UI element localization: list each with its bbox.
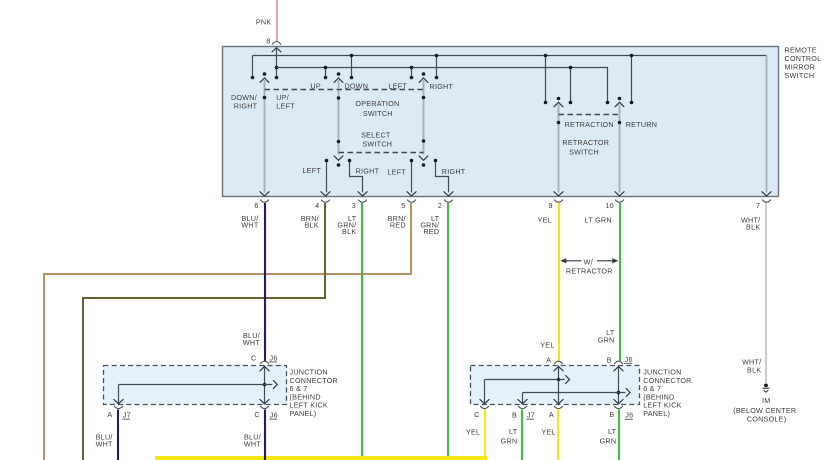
label W/ RETRACTOR [566, 257, 613, 275]
svg-text:J7: J7 [123, 411, 131, 420]
svg-text:UP: UP [310, 81, 321, 90]
svg-text:9: 9 [548, 201, 552, 210]
svg-text:7: 7 [756, 201, 760, 210]
label WHT/BLK pin 7 [741, 216, 760, 232]
svg-text:YEL: YEL [541, 428, 555, 437]
svg-text:PANEL): PANEL) [643, 409, 670, 418]
wire stub down contact [350, 54, 354, 80]
pin 6 [254, 192, 269, 210]
label REMOTE CONTROL MIRROR SWITCH [785, 45, 822, 80]
switch pole up-left to pin 6 [260, 72, 269, 192]
wire BLU/WHT junction A down [117, 410, 119, 460]
label SELECT SWITCH [361, 130, 392, 148]
svg-text:YEL: YEL [538, 216, 552, 225]
pin 2 [438, 192, 453, 210]
junction left internal bus arrow [119, 381, 278, 389]
junction right internal vertical to C [480, 380, 489, 405]
svg-text:YEL: YEL [466, 428, 480, 437]
svg-text:C: C [251, 353, 256, 362]
svg-text:C: C [474, 410, 479, 419]
label LT GRN mid [598, 328, 615, 345]
retractor switch linkage dashed [559, 114, 620, 116]
svg-text:5: 5 [401, 201, 405, 210]
label junction connector right [643, 367, 691, 418]
label LT GRN/BLK pin 3 [337, 214, 356, 236]
junction left pin A bottom [107, 406, 131, 420]
wire LT GRN/RED pin 2 [447, 203, 449, 460]
junction right internal bus arrow 1 [485, 376, 570, 384]
pin 9 [548, 192, 563, 210]
svg-text:LT GRN: LT GRN [585, 216, 612, 225]
wire stub retraction contact a [544, 54, 548, 105]
switch pole return to pin 10 [615, 97, 624, 193]
junction right pin B J6 bottom [609, 406, 633, 420]
svg-text:BLK: BLK [305, 221, 319, 230]
label IM [762, 396, 770, 405]
junction left pin C bottom [254, 406, 278, 420]
label BLU/WHT pin 6 [241, 214, 258, 230]
wire BLU/WHT pin 6 to junction [264, 203, 266, 361]
svg-text:3: 3 [352, 201, 356, 210]
svg-text:B: B [609, 410, 614, 419]
junction right pin A bottom [549, 406, 563, 419]
junction right internal vertical to B J7 [518, 393, 527, 405]
svg-text:A: A [107, 410, 112, 419]
svg-text:GRN: GRN [600, 437, 617, 446]
junction connector 6and7 right box [471, 366, 640, 405]
svg-text:A: A [546, 356, 551, 365]
svg-text:C: C [254, 410, 259, 419]
wire select right contact to pin 2 [434, 159, 449, 193]
label LT GRN pin 10 [585, 216, 612, 225]
svg-text:SELECT: SELECT [361, 130, 391, 139]
switch pole left-right rocker [419, 72, 428, 167]
svg-text:GRN: GRN [598, 336, 615, 345]
svg-text:WHT: WHT [243, 338, 260, 347]
svg-text:LEFT: LEFT [276, 102, 295, 111]
label DOWN [344, 81, 368, 90]
wire LT GRN pin 10 to junction [619, 203, 621, 361]
junction right internal vertical A to A [554, 366, 563, 405]
label PNK [256, 18, 272, 27]
wire stub return contact a [630, 54, 634, 105]
label LT GRN bottom J6 [600, 427, 617, 446]
switch pole up-down rocker [334, 72, 343, 167]
wire select right contact to pin 3 [348, 159, 363, 193]
svg-text:10: 10 [605, 201, 614, 210]
node pin8 on bus B [275, 66, 279, 80]
label LT GRN/RED pin 2 [420, 214, 439, 236]
svg-text:LT: LT [608, 427, 617, 436]
wire YEL junction A down [557, 410, 559, 460]
svg-text:J6: J6 [625, 355, 633, 364]
wire stub down-right contact [251, 56, 255, 80]
junction left internal vertical C to C [260, 366, 269, 405]
svg-text:RETURN: RETURN [626, 120, 657, 129]
svg-text:J6: J6 [270, 353, 278, 362]
wire select left contact to pin 4 [325, 159, 329, 193]
svg-text:CONSOLE): CONSOLE) [747, 414, 787, 423]
label LEFT select2 [387, 168, 406, 177]
wire bus A [253, 55, 767, 57]
svg-text:RETRACTOR: RETRACTOR [566, 266, 613, 275]
pin 4 [315, 192, 330, 210]
svg-text:SWITCH: SWITCH [569, 148, 599, 157]
svg-text:WHT: WHT [244, 440, 261, 449]
svg-text:6: 6 [254, 201, 258, 210]
wire select left contact to pin 5 [410, 159, 414, 193]
svg-text:WHT: WHT [241, 221, 258, 230]
svg-text:W/: W/ [584, 257, 593, 266]
w/ retractor arrows [560, 258, 618, 263]
label UP/LEFT [276, 93, 295, 111]
label LEFT select1 [302, 166, 321, 175]
label YEL bottom C [466, 428, 480, 437]
junction right pin C bottom [474, 406, 489, 419]
junction right internal vertical B to B [614, 366, 623, 405]
label RETRACTION [565, 120, 614, 129]
operation switch linkage dashed [265, 89, 424, 91]
label BLU/WHT bottom C [244, 433, 261, 449]
label BLU/WHT mid [243, 331, 260, 347]
wire bus B [277, 68, 608, 103]
label RETURN [626, 120, 657, 129]
svg-text:B: B [607, 356, 612, 365]
svg-text:BLK: BLK [747, 365, 761, 374]
svg-text:J6: J6 [625, 411, 633, 420]
svg-text:RED: RED [423, 227, 439, 236]
svg-text:2: 2 [438, 201, 442, 210]
svg-text:RIGHT: RIGHT [234, 102, 258, 111]
wire LT GRN junction B J7 down [521, 410, 523, 460]
svg-text:SWITCH: SWITCH [363, 109, 393, 118]
label LEFT op [388, 81, 407, 90]
wire YEL junction C to bottom band [155, 410, 487, 459]
svg-text:PANEL): PANEL) [290, 409, 317, 418]
node return contact b [606, 101, 610, 105]
svg-text:RETRACTOR: RETRACTOR [562, 138, 609, 147]
svg-text:IM: IM [762, 396, 770, 405]
svg-text:LEFT: LEFT [387, 168, 406, 177]
svg-text:PNK: PNK [256, 18, 272, 27]
svg-text:B: B [512, 411, 517, 420]
svg-text:LEFT: LEFT [388, 81, 407, 90]
junction right pin B top [607, 355, 633, 365]
label RIGHT select2 [442, 167, 466, 176]
connector IM [763, 384, 770, 393]
label UP [310, 81, 321, 90]
wire pin 8 feed [276, 48, 278, 78]
svg-text:WHT: WHT [96, 440, 113, 449]
svg-text:RIGHT: RIGHT [442, 167, 466, 176]
svg-text:SWITCH: SWITCH [362, 140, 392, 149]
label RIGHT op [430, 82, 454, 91]
label YEL mid [540, 341, 554, 350]
select switch linkage dashed [339, 152, 424, 154]
label OPERATION SWITCH [355, 99, 399, 118]
svg-text:BLK: BLK [342, 227, 356, 236]
junction right internal bus arrow 2 [523, 389, 631, 397]
remote control mirror switch box [223, 47, 779, 197]
label junction connector left [290, 367, 338, 418]
svg-text:GRN: GRN [501, 437, 518, 446]
label RIGHT select1 [356, 166, 380, 175]
label BELOW CENTER CONSOLE [733, 406, 796, 423]
switch pole retraction to pin 9 [554, 97, 563, 193]
wire stub up contact [324, 66, 328, 80]
svg-text:DOWN: DOWN [344, 81, 368, 90]
junction right pin B J7 bottom [512, 406, 535, 420]
pin 7 [756, 192, 771, 210]
label BRN/RED pin 5 [388, 214, 406, 230]
wire bus A to pin 7 [766, 56, 768, 193]
junction right pin A top [546, 356, 563, 365]
svg-text:LEFT: LEFT [302, 166, 321, 175]
svg-text:YEL: YEL [540, 341, 554, 350]
svg-text:LT: LT [509, 427, 518, 436]
wire LT GRN/BLK pin 3 [361, 203, 363, 460]
junction left internal vertical to A [114, 385, 123, 405]
label YEL pin 9 [538, 216, 552, 225]
svg-text:J6: J6 [270, 411, 278, 420]
junction left pin C top [251, 353, 278, 364]
label RETRACTOR SWITCH [562, 138, 609, 157]
label DOWN/RIGHT [231, 93, 258, 111]
wire WHT/BLK pin 7 down [765, 203, 767, 383]
wire YEL pin 9 to junction [558, 203, 560, 361]
svg-text:RETRACTION: RETRACTION [565, 120, 614, 129]
svg-text:RED: RED [390, 221, 406, 230]
svg-text:8: 8 [266, 37, 270, 46]
wire stub right contact [435, 54, 439, 80]
wire PNK to pin 8 [276, 0, 278, 41]
svg-text:SWITCH: SWITCH [785, 71, 815, 80]
wire stub left contact [410, 66, 414, 80]
pin 8 connector [266, 37, 281, 52]
label WHT/BLK mid [742, 358, 761, 375]
svg-text:RIGHT: RIGHT [430, 82, 454, 91]
pin 3 [352, 192, 367, 210]
wire LT GRN junction B J6 down [618, 410, 620, 460]
wire BRN/BLK pin 4 down-left [83, 203, 325, 460]
svg-text:4: 4 [315, 201, 319, 210]
svg-text:BLK: BLK [746, 223, 760, 232]
wire BLU/WHT junction C down [264, 410, 266, 460]
svg-text:A: A [549, 410, 554, 419]
pin 10 [605, 192, 624, 210]
label BRN/BLK pin 4 [301, 214, 319, 230]
label YEL bottom A [541, 428, 555, 437]
label LT GRN bottom J7 [501, 427, 518, 446]
junction connector 6and7 left box [104, 366, 287, 405]
wire BRN/RED pin 5 down-left [44, 203, 411, 460]
svg-text:RIGHT: RIGHT [356, 166, 380, 175]
wire stub retraction contact b [569, 66, 573, 105]
pin 5 [401, 192, 416, 210]
svg-text:J7: J7 [527, 411, 535, 420]
svg-text:OPERATION: OPERATION [355, 99, 399, 108]
label BLU/WHT bottom A [96, 433, 113, 449]
